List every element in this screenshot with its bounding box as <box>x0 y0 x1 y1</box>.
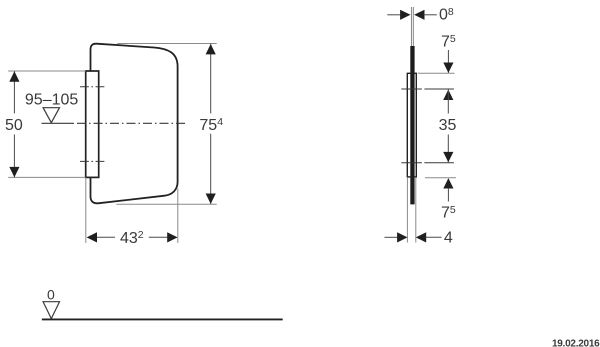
dim 4: extension right <box>415 178 417 243</box>
dim 08: arrow left-pointing <box>414 10 424 20</box>
floor line <box>42 318 283 320</box>
centerline dash-dot <box>77 122 187 124</box>
side fixing mark lower <box>401 162 454 164</box>
dim 35: arrow up <box>443 90 453 100</box>
dim 75 top: arrow down <box>443 63 453 73</box>
dim 75 top: extension <box>418 72 455 74</box>
dim 432: extension right <box>177 189 179 243</box>
dim 50: dimension line <box>13 71 15 113</box>
dim 35: dimension line <box>447 89 449 113</box>
dim 4: arrow right-pointing <box>397 232 407 242</box>
front view panel outline <box>91 44 178 204</box>
svg-text:50: 50 <box>5 117 23 134</box>
mounting rail (front view) <box>86 71 99 177</box>
centerline solid under triangle <box>42 122 75 124</box>
dim 754: extension bottom <box>116 203 216 205</box>
dim 50: arrow up <box>9 71 19 81</box>
svg-text:35: 35 <box>439 117 457 134</box>
dim 4: line right <box>426 236 442 238</box>
datum triangle <box>43 302 59 319</box>
fixing mark lower (front) <box>80 160 105 162</box>
dim 432: extension left <box>85 178 87 243</box>
svg-text:4: 4 <box>444 230 453 247</box>
dim 75 bottom: dimension line <box>447 188 449 202</box>
dim 4: arrow left-pointing <box>416 232 426 242</box>
dim 50: extension bottom <box>8 176 86 178</box>
dim 75 top: dimension line <box>447 50 449 73</box>
dim 754: dimension line <box>210 44 212 114</box>
side view: glass thin top <box>410 7 412 47</box>
dim 754: arrow up <box>206 44 216 54</box>
svg-text:0: 0 <box>47 287 55 303</box>
dim 08: arrow right-pointing <box>400 10 410 20</box>
svg-text:95–105: 95–105 <box>25 91 78 108</box>
dim 35: arrow down <box>443 152 453 162</box>
dim 75 bottom: extension rail bottom <box>425 177 456 179</box>
dim 50: arrow down <box>9 167 19 177</box>
side view: glass seal black bar <box>410 46 414 204</box>
fixing mark upper (front) <box>80 86 105 88</box>
dim 4: line left <box>385 236 399 238</box>
dim 50: extension top <box>8 70 86 72</box>
dim 432: arrow left <box>87 232 97 242</box>
svg-text:19.02.2016: 19.02.2016 <box>552 338 600 347</box>
level triangle 95-105 <box>43 108 59 123</box>
dim 4: extension left <box>406 178 408 243</box>
dim 754: extension top <box>117 43 216 45</box>
dim 08: line right <box>424 14 437 16</box>
side fixing mark upper <box>401 88 454 90</box>
dim 75 bottom: arrow up <box>443 178 453 188</box>
dim 08: line left <box>387 14 401 16</box>
dim 432: dimension line <box>96 236 115 238</box>
side view: rail profile <box>407 73 416 177</box>
dim 432: arrow right <box>167 232 177 242</box>
dim 754: arrow down <box>206 194 216 204</box>
